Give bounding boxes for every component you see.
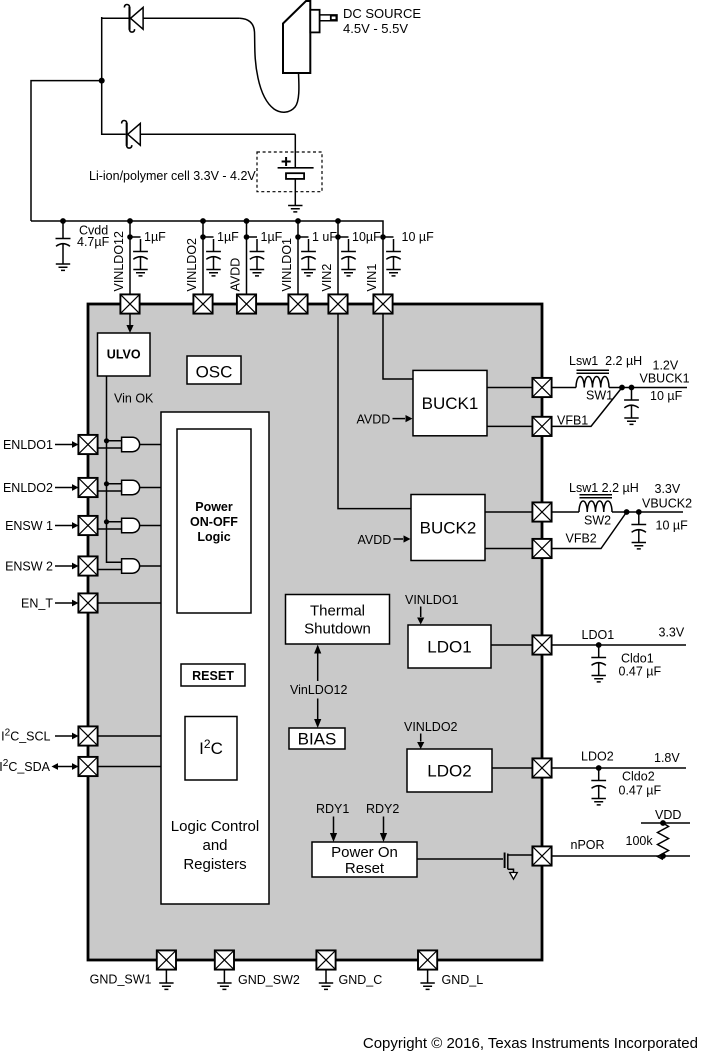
wire pin AVDD bbox=[247, 221, 258, 295]
svg-text:AVDD: AVDD bbox=[357, 413, 391, 427]
pin I2C_SDA bbox=[78, 757, 97, 776]
svg-text:AVDD: AVDD bbox=[229, 258, 243, 292]
node LDO1 dot bbox=[596, 642, 602, 648]
wire supply bus bbox=[31, 221, 383, 295]
svg-text:3.3V: 3.3V bbox=[659, 626, 685, 640]
block RESET bbox=[181, 664, 245, 686]
ground battery bbox=[288, 206, 302, 212]
svg-text:Reset: Reset bbox=[345, 860, 385, 877]
pin LDO2 bbox=[532, 758, 551, 777]
pin GND_L bbox=[418, 950, 437, 969]
wire VIN2 to BUCK2 bbox=[338, 314, 411, 509]
capacitor C2 1uF bbox=[206, 239, 221, 276]
wire gate upper input stubs bbox=[107, 441, 122, 522]
svg-text:3.3V: 3.3V bbox=[655, 482, 681, 496]
svg-text:ENLDO1: ENLDO1 bbox=[3, 438, 53, 452]
svg-text:VDD: VDD bbox=[655, 808, 681, 822]
and gate G1 bbox=[122, 437, 140, 451]
battery plus sign bbox=[282, 157, 291, 166]
svg-text:SW1: SW1 bbox=[586, 389, 613, 403]
wire POR to transistor gate bbox=[417, 858, 503, 860]
IC main block bbox=[88, 304, 542, 960]
and gate G4 bbox=[122, 559, 140, 573]
wire pin VINLDO12 bbox=[130, 221, 141, 295]
capacitor Cvdd 4.7uF bbox=[56, 221, 71, 270]
wire LDO2 output bbox=[552, 767, 686, 769]
block LDO1 bbox=[408, 625, 491, 668]
svg-text:0.47 µF: 0.47 µF bbox=[619, 665, 662, 679]
svg-text:RESET: RESET bbox=[192, 669, 234, 683]
block LDO2 bbox=[407, 749, 492, 792]
block Power ON-OFF Logic bbox=[177, 429, 251, 613]
svg-text:I2C: I2C bbox=[199, 737, 223, 758]
svg-text:10 µF: 10 µF bbox=[650, 389, 683, 403]
svg-text:ENSW 2: ENSW 2 bbox=[5, 560, 53, 574]
svg-text:Copyright © 2016, Texas Instru: Copyright © 2016, Texas Instruments Inco… bbox=[363, 1035, 698, 1052]
battery cell dashed box bbox=[257, 152, 322, 192]
pin nPOR bbox=[532, 846, 551, 865]
svg-text:10µF: 10µF bbox=[352, 230, 381, 244]
wire BUCK1 to VFB1 pin bbox=[487, 425, 532, 427]
node vinok dots bbox=[104, 438, 109, 443]
node SW2 dots bbox=[624, 509, 630, 515]
svg-text:Li-ion/polymer cell 3.3V - 4.2: Li-ion/polymer cell 3.3V - 4.2V bbox=[89, 169, 256, 183]
svg-text:BIAS: BIAS bbox=[298, 730, 337, 749]
block ULVO bbox=[98, 333, 151, 376]
wire gate outputs bbox=[140, 445, 161, 567]
svg-text:Cldo1: Cldo1 bbox=[621, 652, 654, 666]
pin ENLDO2 bbox=[78, 478, 97, 497]
battery top plate bbox=[278, 167, 314, 169]
DC adapter body bbox=[283, 1, 310, 73]
wire arrow RDY1 bbox=[333, 817, 335, 834]
pin EN_T bbox=[78, 593, 97, 612]
block Logic Control and Registers bbox=[161, 412, 269, 904]
wire Vin OK line bbox=[107, 376, 122, 562]
svg-text:10 µF: 10 µF bbox=[656, 519, 689, 533]
svg-text:1.8V: 1.8V bbox=[654, 751, 680, 765]
svg-text:and: and bbox=[202, 837, 227, 854]
node VDD dot bbox=[660, 820, 666, 826]
wire LDO1 to pin bbox=[491, 644, 532, 646]
capacitor C6 10uF bbox=[386, 239, 401, 276]
ground GND_L bbox=[427, 970, 429, 983]
wire arrow down to BIAS bbox=[317, 699, 319, 720]
pin SW1 bbox=[532, 378, 551, 397]
wire SW1 output bbox=[552, 387, 687, 389]
pin VFB2 bbox=[532, 539, 551, 558]
wire vertical between diodes bbox=[101, 17, 103, 135]
svg-text:1.2V: 1.2V bbox=[653, 359, 679, 373]
svg-text:VFB2: VFB2 bbox=[566, 532, 597, 546]
block OSC bbox=[187, 356, 241, 384]
block I2C bbox=[185, 717, 237, 781]
svg-text:LDO2: LDO2 bbox=[581, 750, 614, 764]
wire arrow RDY2 bbox=[383, 817, 385, 834]
wire ENLDO2 to gate bbox=[98, 490, 122, 492]
svg-text:VinLDO12: VinLDO12 bbox=[290, 683, 347, 697]
wire ENSW2 to gate bbox=[98, 569, 122, 571]
svg-text:ON-OFF: ON-OFF bbox=[190, 515, 238, 529]
ground GND_SW2 bbox=[223, 970, 225, 983]
svg-text:VFB1: VFB1 bbox=[557, 414, 588, 428]
wire ENSW1 to gate bbox=[98, 528, 122, 530]
pin AVDD bbox=[237, 294, 256, 313]
node LDO2 dot bbox=[596, 765, 602, 771]
capacitor C3 1uF bbox=[250, 239, 265, 276]
capacitor Cbuck2 10uF bbox=[631, 512, 646, 549]
svg-text:LDO1: LDO1 bbox=[427, 638, 471, 657]
pin GND_SW1 bbox=[157, 950, 176, 969]
svg-text:4.7µF: 4.7µF bbox=[77, 235, 110, 249]
svg-text:VINLDO2: VINLDO2 bbox=[404, 720, 458, 734]
and gate G2 bbox=[122, 480, 140, 494]
svg-text:Lsw1 2.2 µH: Lsw1 2.2 µH bbox=[569, 354, 642, 368]
block BUCK1 bbox=[413, 370, 487, 435]
wire lower diode row bbox=[102, 133, 296, 135]
svg-text:1µF: 1µF bbox=[217, 230, 239, 244]
pin VIN2 bbox=[328, 294, 347, 313]
svg-text:ENLDO2: ENLDO2 bbox=[3, 481, 53, 495]
wire top diode row bbox=[102, 17, 240, 19]
wire LDO2 to pin bbox=[492, 767, 532, 769]
svg-text:VINLDO1: VINLDO1 bbox=[405, 593, 459, 607]
transistor source open triangle bbox=[510, 873, 518, 880]
svg-text:1 uF: 1 uF bbox=[312, 230, 337, 244]
pin ENSW2 bbox=[78, 556, 97, 575]
svg-text:VIN1: VIN1 bbox=[365, 264, 379, 292]
wire ENLDO1 to gate bbox=[98, 447, 122, 449]
capacitor Cbuck1 10uF bbox=[624, 388, 639, 425]
diode D1 schottky bbox=[124, 5, 143, 33]
wire I2C_SDA bbox=[98, 766, 162, 768]
svg-text:RDY2: RDY2 bbox=[366, 802, 399, 816]
svg-text:Vin OK: Vin OK bbox=[114, 392, 154, 406]
svg-text:I2C_SDA: I2C_SDA bbox=[0, 758, 51, 774]
svg-text:VBUCK2: VBUCK2 bbox=[642, 497, 692, 511]
wire EN_T bbox=[98, 602, 162, 604]
capacitor C4 1uF bbox=[301, 239, 316, 276]
capacitor Cldo1 bbox=[591, 645, 606, 682]
svg-text:Registers: Registers bbox=[183, 856, 246, 873]
svg-text:Logic Control: Logic Control bbox=[171, 818, 259, 835]
block BUCK2 bbox=[411, 495, 485, 561]
wire VFB2 feedback bbox=[552, 512, 627, 549]
wire pin VINLDO2 bbox=[203, 221, 214, 295]
wire VIN1 to BUCK1 bbox=[383, 314, 413, 379]
block Power On Reset bbox=[312, 842, 417, 877]
svg-text:VINLDO1: VINLDO1 bbox=[280, 238, 294, 292]
inductor Lsw1 bbox=[576, 370, 609, 387]
pin GND_SW2 bbox=[215, 950, 234, 969]
battery bottom plate bbox=[286, 173, 304, 179]
svg-text:OSC: OSC bbox=[196, 363, 233, 382]
svg-text:Power: Power bbox=[195, 500, 233, 514]
resistor R1 100k bbox=[658, 823, 669, 860]
ground GND_SW1 bbox=[165, 970, 167, 983]
block Thermal Shutdown bbox=[286, 595, 390, 645]
pin GND_C bbox=[316, 950, 335, 969]
pin VFB1 bbox=[532, 417, 551, 436]
svg-text:AVDD: AVDD bbox=[358, 533, 392, 547]
DC adapter prong tip bbox=[331, 16, 337, 20]
svg-text:Cldo2: Cldo2 bbox=[622, 770, 655, 784]
svg-text:VINLDO12: VINLDO12 bbox=[112, 231, 126, 291]
wire LDO1 output bbox=[552, 644, 686, 646]
svg-text:LDO1: LDO1 bbox=[582, 628, 615, 642]
svg-text:BUCK2: BUCK2 bbox=[420, 519, 477, 538]
wire arrow up to Thermal Shutdown bbox=[317, 653, 319, 681]
pin SW2 bbox=[532, 502, 551, 521]
pin ENSW1 bbox=[78, 516, 97, 535]
svg-text:1µF: 1µF bbox=[144, 230, 166, 244]
svg-text:Shutdown: Shutdown bbox=[304, 621, 371, 638]
pin VIN1 bbox=[373, 294, 392, 313]
svg-text:GND_L: GND_L bbox=[442, 973, 484, 987]
wire pin VINLDO1 bbox=[298, 221, 309, 295]
pin VINLDO1 bbox=[288, 294, 307, 313]
wire SW2 output bbox=[552, 511, 683, 513]
svg-text:nPOR: nPOR bbox=[571, 838, 605, 852]
pin ENLDO1 bbox=[78, 435, 97, 454]
capacitor Cldo2 bbox=[591, 768, 606, 805]
capacitor C5 10uF bbox=[341, 239, 356, 276]
svg-text:ULVO: ULVO bbox=[107, 348, 141, 362]
wire pin VIN2 bbox=[338, 221, 349, 295]
svg-text:Logic: Logic bbox=[197, 530, 230, 544]
svg-text:GND_SW2: GND_SW2 bbox=[238, 973, 300, 987]
svg-text:Power On: Power On bbox=[331, 844, 398, 861]
ground GND_C bbox=[325, 970, 327, 983]
node nPOR dot bbox=[660, 853, 666, 859]
svg-text:BUCK1: BUCK1 bbox=[422, 394, 479, 413]
svg-text:GND_SW1: GND_SW1 bbox=[90, 973, 152, 987]
wire I2C_SCL bbox=[98, 735, 162, 737]
svg-text:LDO2: LDO2 bbox=[427, 762, 471, 781]
wire VDD rail bbox=[641, 822, 690, 824]
DC adapter prong bbox=[320, 15, 337, 21]
svg-text:Thermal: Thermal bbox=[310, 603, 365, 620]
wire VFB1 feedback bbox=[552, 388, 622, 427]
block BIAS bbox=[289, 728, 345, 749]
pin I2C_SCL bbox=[78, 726, 97, 745]
svg-text:VBUCK1: VBUCK1 bbox=[640, 372, 690, 386]
svg-text:SW2: SW2 bbox=[584, 514, 611, 528]
pin LDO1 bbox=[532, 635, 551, 654]
pin VINLDO2 bbox=[193, 294, 212, 313]
and gate G3 bbox=[122, 518, 140, 532]
wire nPOR output bbox=[552, 855, 690, 857]
pin VINLDO12 bbox=[120, 294, 139, 313]
wire BUCK2 to VFB2 pin bbox=[485, 548, 532, 550]
capacitor C1 1uF bbox=[133, 239, 148, 276]
node junction top-left bbox=[99, 78, 105, 84]
svg-text:ENSW 1: ENSW 1 bbox=[5, 519, 53, 533]
wire battery stem bbox=[294, 134, 296, 205]
node SW1 dots bbox=[619, 385, 625, 391]
svg-text:RDY1: RDY1 bbox=[316, 802, 349, 816]
inductor Lsw2 bbox=[579, 495, 612, 512]
DC adapter socket bbox=[310, 10, 319, 33]
svg-text:VIN2: VIN2 bbox=[320, 264, 334, 292]
svg-text:10 µF: 10 µF bbox=[402, 230, 435, 244]
svg-text:VINLDO2: VINLDO2 bbox=[185, 238, 199, 292]
svg-text:100k: 100k bbox=[626, 834, 654, 848]
wire VINLDO12 to ULVO arrow bbox=[129, 314, 131, 326]
diode D2 schottky bbox=[122, 121, 141, 149]
svg-text:GND_C: GND_C bbox=[339, 973, 383, 987]
wire pin VIN1 cap stub bbox=[383, 236, 394, 238]
transistor Q1 open-drain bbox=[504, 853, 506, 869]
svg-text:DC SOURCE: DC SOURCE bbox=[343, 6, 421, 21]
svg-text:0.47 µF: 0.47 µF bbox=[619, 784, 662, 798]
wire BUCK2 to SW2 pin bbox=[485, 511, 532, 513]
svg-text:Lsw1 2.2 µH: Lsw1 2.2 µH bbox=[569, 481, 639, 495]
node bus dots bbox=[60, 218, 66, 224]
wire adapter cord bbox=[240, 18, 299, 112]
wire left rail bbox=[31, 81, 102, 221]
svg-text:EN_T: EN_T bbox=[21, 597, 53, 611]
svg-text:4.5V - 5.5V: 4.5V - 5.5V bbox=[343, 21, 408, 36]
wire BUCK1 to SW1 pin bbox=[487, 387, 532, 389]
